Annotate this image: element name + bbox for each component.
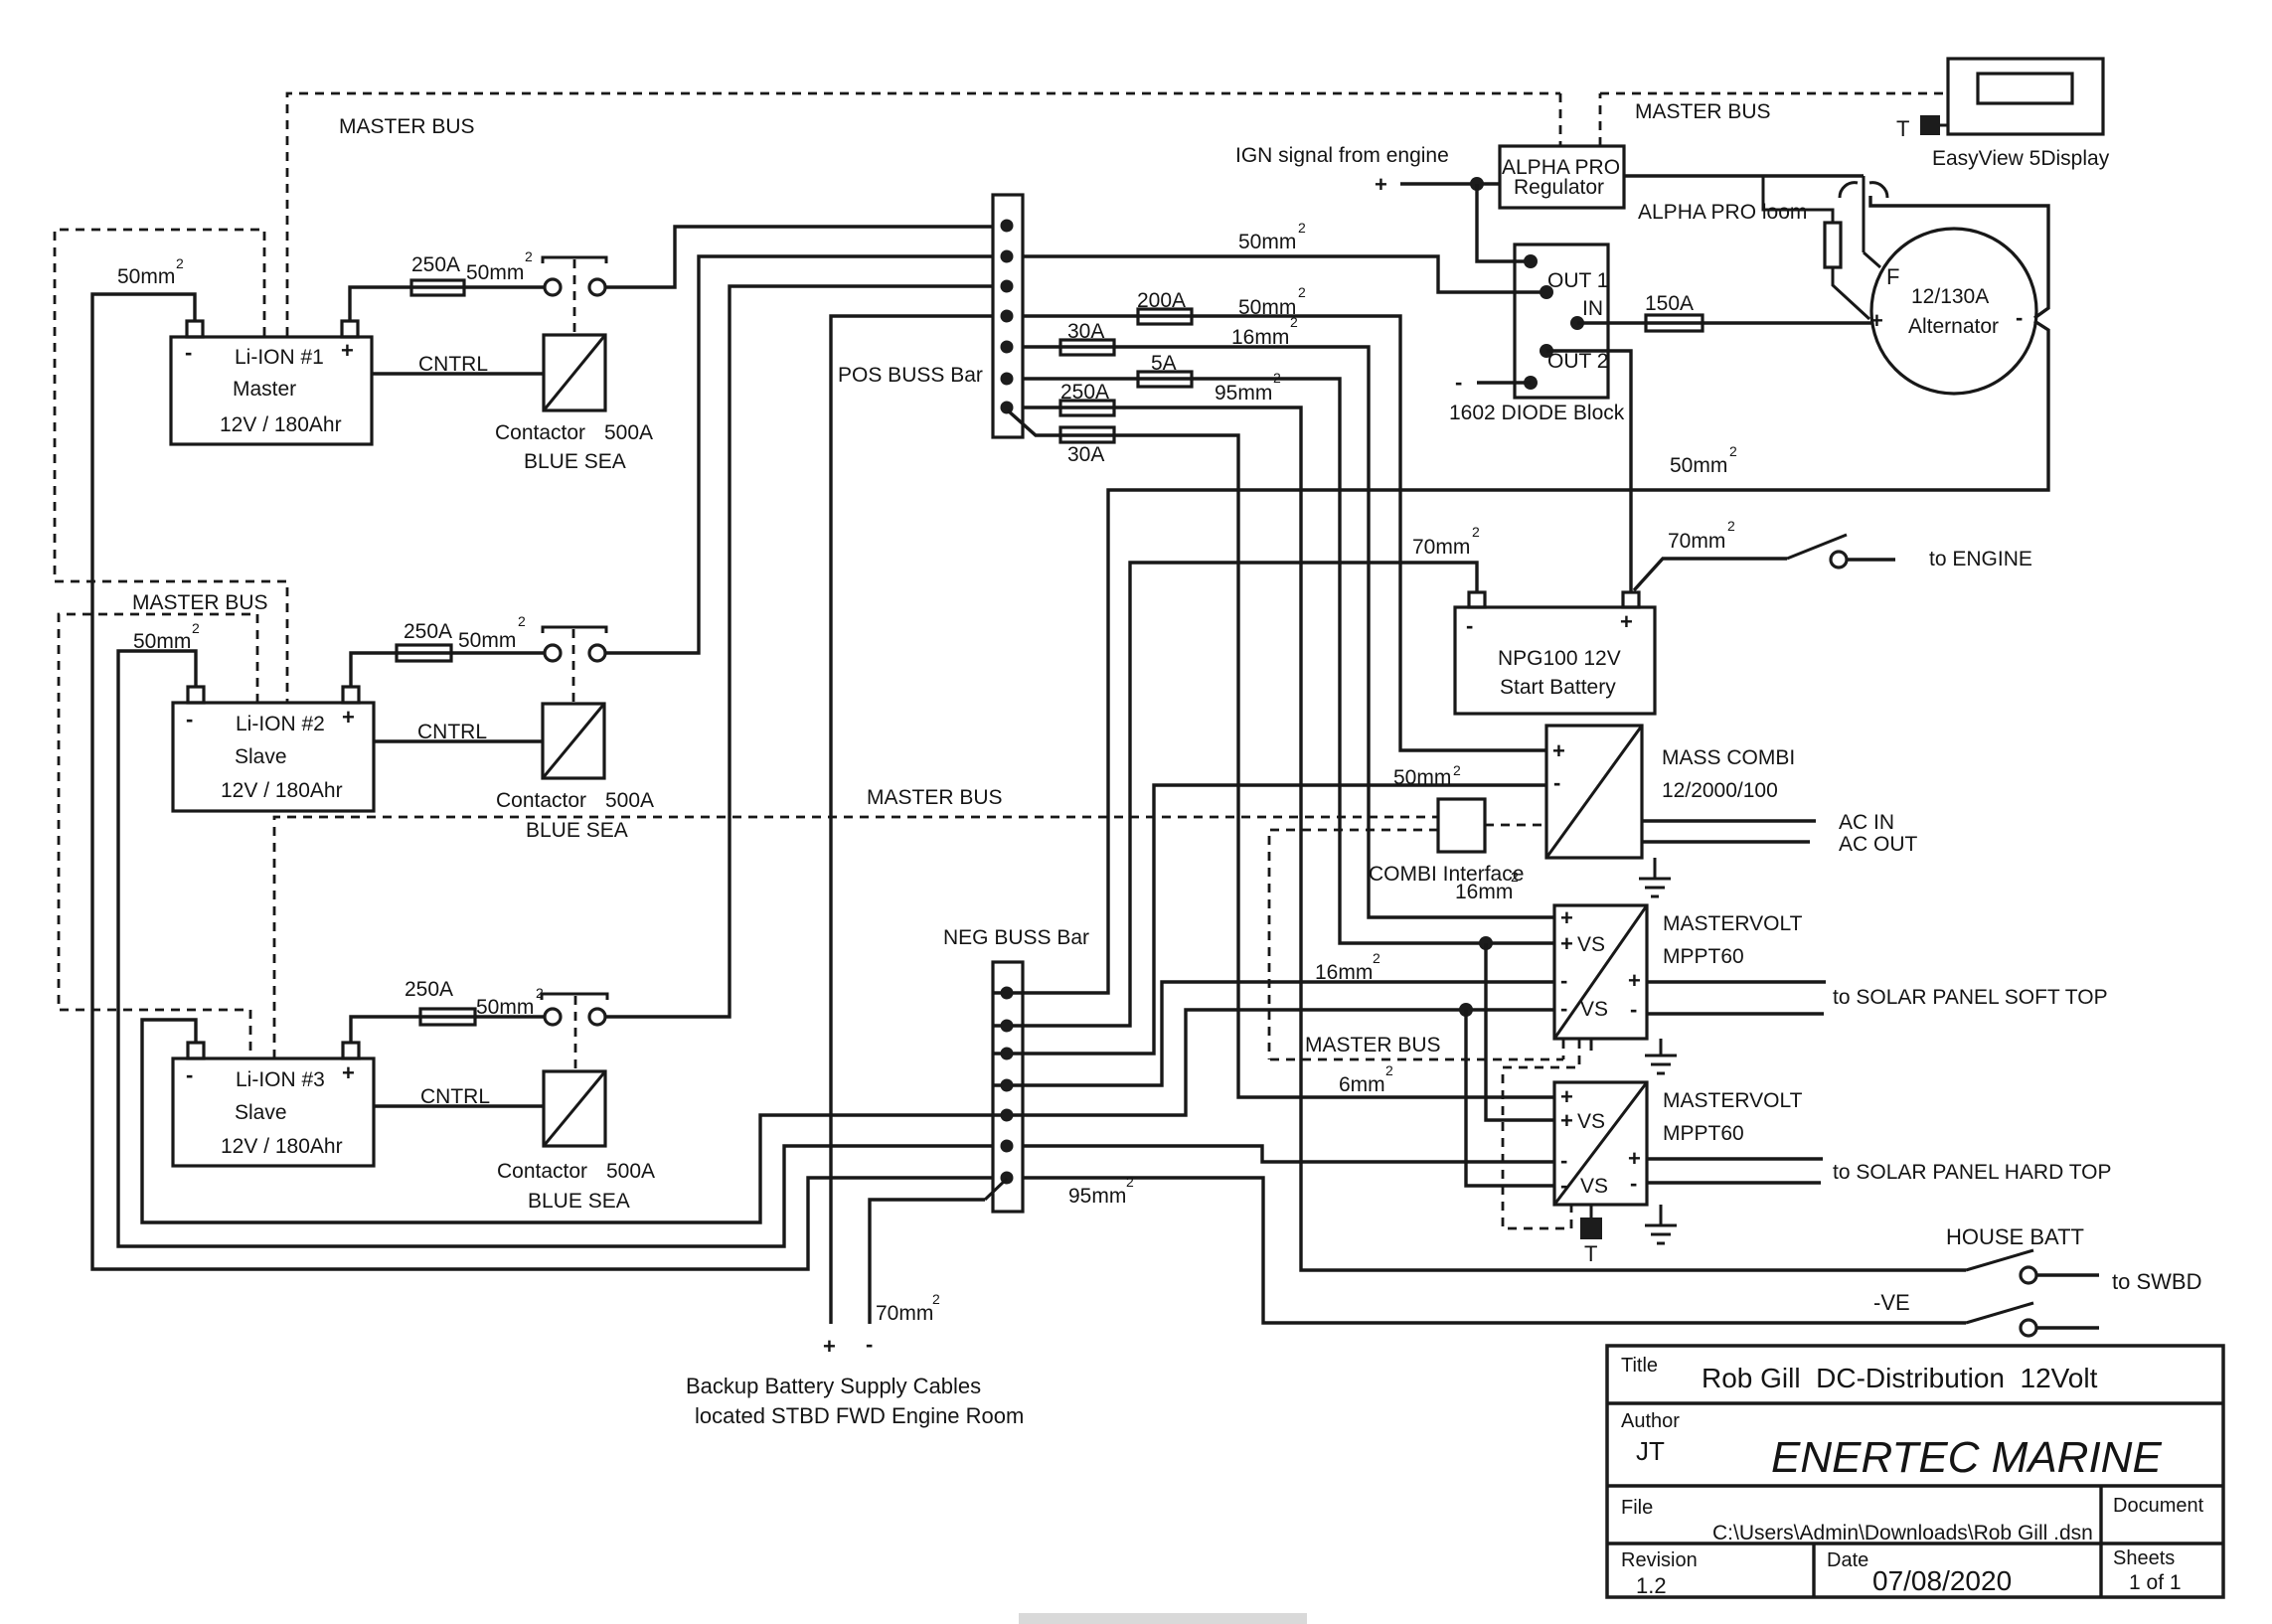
svg-text:2: 2 — [525, 248, 533, 264]
battery B4 NPG100 start battery — [1455, 592, 1655, 714]
wire regulator to alternator field — [1624, 176, 1880, 267]
svg-text:EasyView 5Display: EasyView 5Display — [1932, 147, 2110, 170]
node POS BUSS Bar — [838, 195, 1023, 437]
svg-text:16mm: 16mm — [1315, 961, 1373, 984]
svg-text:5A: 5A — [1151, 352, 1177, 375]
svg-text:to ENGINE: to ENGINE — [1929, 548, 2032, 570]
svg-text:95mm: 95mm — [1068, 1185, 1126, 1208]
wire B1 switch to POS bar — [606, 227, 993, 287]
svg-text:MASTER BUS: MASTER BUS — [867, 786, 1003, 809]
svg-text:+: + — [342, 1060, 355, 1085]
svg-text:POS BUSS Bar: POS BUSS Bar — [838, 364, 983, 387]
svg-text:MASS COMBI: MASS COMBI — [1662, 746, 1795, 769]
svg-text:2: 2 — [1126, 1174, 1134, 1190]
svg-text:F: F — [1886, 264, 1899, 289]
fuse F2 250A — [397, 620, 452, 661]
svg-text:50mm: 50mm — [1393, 766, 1451, 789]
svg-text:12/130A: 12/130A — [1911, 285, 1989, 308]
svg-text:MPPT60: MPPT60 — [1663, 1122, 1744, 1145]
svg-text:12V / 180Ahr: 12V / 180Ahr — [221, 1135, 343, 1158]
battery B2 Li-ION #2 — [173, 687, 374, 811]
svg-text:-: - — [1560, 996, 1567, 1021]
wire MPPT1 minusVS from NEG bar — [993, 1010, 1554, 1115]
contactor K2 500A BLUE SEA — [496, 629, 654, 842]
wire solar hard top + — [1647, 1157, 1823, 1160]
battery B3 Li-ION #3 — [173, 1043, 374, 1166]
svg-text:-: - — [1466, 613, 1473, 638]
display EasyView 5 — [1896, 59, 2110, 170]
svg-text:Start Battery: Start Battery — [1500, 676, 1616, 699]
svg-text:50mm: 50mm — [458, 629, 516, 652]
wire NEG bar bottom stub 95mm2 to backup - — [870, 1179, 1007, 1324]
svg-text:250A: 250A — [405, 978, 453, 1001]
fuse F7 250A — [1060, 381, 1114, 415]
junction +VS chain — [1479, 936, 1493, 950]
svg-text:+: + — [1560, 931, 1573, 956]
svg-text:+: + — [1552, 738, 1565, 763]
svg-text:2: 2 — [1472, 524, 1480, 540]
wire POS bar 30A row to MPPT1 + — [1023, 347, 1554, 917]
svg-text:Backup Battery Supply Cables: Backup Battery Supply Cables — [686, 1374, 981, 1398]
svg-text:HOUSE BATT: HOUSE BATT — [1946, 1224, 2084, 1249]
svg-text:6mm: 6mm — [1339, 1073, 1385, 1096]
svg-text:+: + — [1560, 905, 1573, 930]
svg-text:Slave: Slave — [235, 745, 287, 768]
wire start battery negative 70mm2 — [993, 563, 1477, 1026]
svg-text:NEG BUSS Bar: NEG BUSS Bar — [943, 926, 1089, 949]
svg-text:BLUE SEA: BLUE SEA — [528, 1190, 630, 1213]
svg-text:MASTER BUS: MASTER BUS — [1305, 1034, 1441, 1056]
svg-text:50mm: 50mm — [117, 265, 175, 288]
switch S3 battery disconnect — [542, 994, 607, 1025]
svg-text:95mm: 95mm — [1215, 382, 1272, 405]
junction -VS chain — [1459, 1003, 1473, 1017]
svg-text:Author: Author — [1621, 1410, 1680, 1432]
charger U4 MASTERVOLT MPPT60 no1 — [1554, 905, 1803, 1051]
svg-text:MPPT60: MPPT60 — [1663, 945, 1744, 968]
svg-text:Li-ION #2: Li-ION #2 — [236, 713, 325, 735]
wire diode minus stub — [1477, 381, 1531, 384]
charger U5 MASTERVOLT MPPT60 no2 — [1554, 1082, 1803, 1205]
wire POS bar 200A row to MASS COMBI + — [1023, 316, 1546, 750]
contactor K3 500A BLUE SEA — [497, 996, 655, 1213]
svg-text:Li-ION #1: Li-ION #1 — [235, 346, 324, 369]
svg-text:AC IN: AC IN — [1839, 811, 1894, 834]
svg-text:AC OUT: AC OUT — [1839, 833, 1918, 856]
svg-text:IGN signal from engine: IGN signal from engine — [1235, 144, 1449, 167]
svg-text:250A: 250A — [411, 253, 460, 276]
wire AC IN — [1642, 819, 1816, 822]
net MASTER BUS loop battery2-battery3 — [59, 614, 257, 1058]
wire B2 negative 50mm2 — [118, 651, 993, 1246]
wire AC OUT — [1642, 840, 1810, 843]
sensor T MPPT2 temperature — [1580, 1205, 1602, 1266]
wire POS bar 50mm2 to diode OUT1 — [1023, 256, 1546, 292]
svg-text:70mm: 70mm — [1412, 536, 1470, 559]
svg-text:Slave: Slave — [235, 1101, 287, 1124]
svg-text:+: + — [1375, 172, 1387, 197]
svg-text:File: File — [1621, 1497, 1653, 1519]
svg-text:VS: VS — [1577, 1110, 1605, 1133]
wire POS bar to backup + cable — [831, 316, 993, 1324]
svg-text:70mm: 70mm — [1668, 530, 1725, 553]
svg-text:+: + — [1628, 1146, 1641, 1171]
svg-text:T: T — [1584, 1241, 1597, 1266]
svg-text:+: + — [1560, 1084, 1573, 1109]
svg-text:JT: JT — [1636, 1436, 1665, 1466]
svg-text:MASTERVOLT: MASTERVOLT — [1663, 1089, 1803, 1112]
svg-text:50mm: 50mm — [133, 630, 191, 653]
fuse F4 200A — [1137, 289, 1192, 324]
svg-text:MASTER BUS: MASTER BUS — [132, 591, 268, 614]
ground MASS COMBI — [1639, 858, 1671, 896]
svg-text:OUT 1: OUT 1 — [1547, 269, 1608, 292]
svg-text:16mm: 16mm — [1455, 881, 1513, 903]
wire NEG bar to MPPT2 minus — [1023, 1146, 1554, 1162]
wire B3 switch to POS bar — [606, 286, 993, 1017]
wire POS bar 30A second row to MPPT2 + 6mm2 — [1008, 410, 1554, 1097]
svg-text:located STBD FWD Engine Room: located STBD FWD Engine Room — [695, 1403, 1024, 1428]
wire B1 negative 50mm2 — [92, 294, 993, 1269]
svg-text:CNTRL: CNTRL — [418, 353, 488, 376]
fuse F6 5A — [1138, 352, 1192, 387]
net MASTER BUS long dashed to COMBI interface — [274, 817, 1438, 1058]
svg-text:2: 2 — [932, 1291, 940, 1307]
svg-text:2: 2 — [1385, 1062, 1393, 1078]
svg-text:2: 2 — [1373, 950, 1380, 966]
wire B2 switch to POS bar — [606, 256, 993, 653]
svg-text:2: 2 — [1273, 370, 1281, 386]
wire alternator negative return 50mm2 — [993, 321, 2048, 993]
wire B1 positive to fuse — [350, 287, 411, 321]
inverter U2 MASS COMBI — [1546, 726, 1795, 858]
svg-text:1.2: 1.2 — [1636, 1573, 1667, 1598]
scan artifact bottom — [1019, 1613, 1307, 1624]
switch S1 battery disconnect — [543, 257, 606, 295]
diode block D1 1602 — [1449, 244, 1625, 424]
svg-text:50mm: 50mm — [1238, 231, 1296, 253]
wire solar hard top - — [1647, 1181, 1821, 1184]
wire start battery + to ENGINE — [1634, 559, 1787, 590]
svg-text:-: - — [866, 1332, 873, 1357]
svg-text:500A: 500A — [605, 789, 654, 812]
wire B3 positive to fuse — [351, 1017, 420, 1043]
svg-text:2: 2 — [192, 620, 200, 636]
svg-text:200A: 200A — [1137, 289, 1186, 312]
svg-text:-: - — [1553, 770, 1560, 795]
svg-text:Document: Document — [2113, 1495, 2204, 1517]
wire MASS COMBI - 50mm2 — [993, 785, 1546, 1054]
svg-text:Master: Master — [233, 378, 296, 401]
svg-text:BLUE SEA: BLUE SEA — [526, 819, 628, 842]
title block — [1607, 1346, 2223, 1598]
svg-text:07/08/2020: 07/08/2020 — [1872, 1565, 2012, 1596]
ground MPPT1 — [1645, 1039, 1677, 1073]
svg-text:CNTRL: CNTRL — [417, 721, 487, 743]
net MASTER BUS dashed COMBI to MASS COMBI — [1485, 824, 1546, 827]
wire diode OUT2 to start battery + — [1546, 351, 1631, 592]
node NEG BUSS Bar — [943, 926, 1089, 1212]
svg-text:2: 2 — [1453, 762, 1461, 778]
svg-text:1602 DIODE Block: 1602 DIODE Block — [1449, 402, 1625, 424]
svg-text:250A: 250A — [1060, 381, 1109, 404]
wire CNTRL B3 — [374, 1104, 544, 1107]
wire POS bar 250A row 95mm2 to house batt switch — [1023, 407, 1966, 1270]
fuse F3 250A — [405, 978, 475, 1025]
switch S2 battery disconnect — [543, 627, 606, 661]
svg-text:2: 2 — [176, 255, 184, 271]
fuse F5 30A — [1060, 320, 1114, 355]
svg-text:Rob Gill DC-Distribution 12V: Rob Gill DC-Distribution 12Volt — [1702, 1363, 2098, 1393]
svg-text:500A: 500A — [604, 421, 653, 444]
svg-text:-: - — [1630, 997, 1637, 1022]
svg-text:50mm: 50mm — [466, 261, 524, 284]
wire B2 positive to fuse — [351, 653, 397, 687]
wire CNTRL B1 — [372, 372, 544, 375]
svg-text:-: - — [2016, 305, 2023, 330]
svg-text:+: + — [1870, 308, 1883, 333]
fuse F1 250A — [411, 253, 464, 295]
svg-text:IN: IN — [1582, 297, 1603, 320]
svg-text:16mm: 16mm — [1231, 326, 1289, 349]
svg-text:OUT 2: OUT 2 — [1547, 350, 1608, 373]
svg-text:30A: 30A — [1067, 443, 1104, 466]
svg-text:2: 2 — [1290, 314, 1298, 330]
svg-text:2: 2 — [518, 613, 526, 629]
interface U3 COMBI Interface — [1369, 799, 1524, 886]
svg-text:Li-ION #3: Li-ION #3 — [236, 1068, 325, 1091]
svg-text:-: - — [185, 340, 192, 365]
switch S4 to ENGINE — [1787, 535, 1895, 568]
svg-text:12/2000/100: 12/2000/100 — [1662, 779, 1778, 802]
svg-text:MASTERVOLT: MASTERVOLT — [1663, 912, 1803, 935]
wire IGN + to regulator — [1400, 182, 1500, 185]
svg-text:to SWBD: to SWBD — [2112, 1269, 2201, 1294]
svg-text:-VE: -VE — [1873, 1290, 1910, 1315]
svg-text:-: - — [1560, 1148, 1567, 1173]
svg-text:250A: 250A — [404, 620, 452, 643]
net MASTER BUS loop battery1-battery2 — [55, 230, 287, 703]
svg-text:Title: Title — [1621, 1355, 1658, 1377]
svg-text:2: 2 — [1511, 869, 1519, 885]
svg-text:+: + — [1620, 609, 1633, 634]
svg-text:to SOLAR PANEL SOFT TOP: to SOLAR PANEL SOFT TOP — [1833, 986, 2108, 1009]
svg-text:1 of 1: 1 of 1 — [2129, 1571, 2182, 1594]
ground MPPT2 — [1645, 1205, 1677, 1243]
svg-text:-: - — [1630, 1171, 1637, 1196]
wire CNTRL B2 — [374, 739, 543, 742]
svg-text:-: - — [186, 1062, 193, 1087]
svg-text:+: + — [342, 705, 355, 730]
svg-text:12V / 180Ahr: 12V / 180Ahr — [221, 779, 343, 802]
svg-text:Date: Date — [1827, 1549, 1868, 1571]
net MASTER BUS branch to MPPT area — [1269, 830, 1579, 1228]
svg-text:Sheets: Sheets — [2113, 1547, 2175, 1569]
svg-text:30A: 30A — [1067, 320, 1104, 343]
wire B3 negative 50mm2 — [142, 1020, 993, 1222]
wire fuse to switch B3 — [475, 1015, 544, 1018]
svg-text:2: 2 — [1298, 284, 1306, 300]
wire MPPT1 minus 16mm2 from NEG bar — [993, 982, 1554, 1085]
svg-text:2: 2 — [1298, 220, 1306, 236]
wire fuse to switch B1 — [464, 285, 544, 288]
svg-text:50mm: 50mm — [1238, 296, 1296, 319]
regulator U1 ALPHA PRO — [1500, 146, 1624, 208]
svg-text:MASTER BUS: MASTER BUS — [339, 115, 475, 138]
fuse F9 alternator sense — [1763, 176, 1869, 319]
svg-text:500A: 500A — [606, 1160, 655, 1183]
svg-text:Alternator: Alternator — [1908, 315, 1999, 338]
svg-text:ALPHA PRO loom: ALPHA PRO loom — [1638, 201, 1807, 224]
svg-text:VS: VS — [1580, 1175, 1608, 1198]
net MASTER BUS top dashed run — [287, 93, 1948, 336]
svg-text:+: + — [341, 338, 354, 363]
svg-text:70mm: 70mm — [876, 1302, 933, 1325]
svg-text:Contactor: Contactor — [497, 1160, 587, 1183]
fuse F8 30A — [1060, 427, 1114, 466]
svg-text:2: 2 — [1729, 443, 1737, 459]
wire junction to diode top pin — [1477, 184, 1531, 261]
switch S5 house batt to SWBD — [1966, 1250, 2099, 1283]
alternator G1 12/130A — [1870, 229, 2036, 394]
svg-text:ENERTEC MARINE: ENERTEC MARINE — [1771, 1433, 2162, 1482]
wire diode IN through 150A fuse to alternator + — [1577, 292, 1872, 331]
contactor K1 500A BLUE SEA — [495, 259, 653, 473]
svg-text:-: - — [1560, 968, 1567, 993]
svg-text:CNTRL: CNTRL — [420, 1085, 490, 1108]
svg-text:50mm: 50mm — [1670, 454, 1727, 477]
svg-text:-: - — [1455, 370, 1462, 395]
svg-text:BLUE SEA: BLUE SEA — [524, 450, 626, 473]
svg-text:C:\Users\Admin\Downloads\Rob G: C:\Users\Admin\Downloads\Rob Gill .dsn — [1712, 1522, 2093, 1544]
svg-text:MASTER BUS: MASTER BUS — [1635, 100, 1771, 123]
svg-text:+: + — [1628, 968, 1641, 993]
svg-text:2: 2 — [1727, 518, 1735, 534]
svg-text:-: - — [1560, 1173, 1567, 1198]
wire solar soft top + — [1647, 980, 1826, 983]
svg-text:to SOLAR PANEL HARD TOP: to SOLAR PANEL HARD TOP — [1833, 1161, 2112, 1184]
svg-text:+: + — [823, 1334, 836, 1359]
svg-text:12V / 180Ahr: 12V / 180Ahr — [220, 413, 342, 436]
svg-text:NPG100 12V: NPG100 12V — [1498, 647, 1621, 670]
switch S6 -VE to SWBD — [1966, 1303, 2099, 1336]
svg-text:+: + — [1560, 1108, 1573, 1133]
svg-text:150A: 150A — [1645, 292, 1694, 315]
battery B1 Li-ION #1 — [171, 321, 372, 444]
svg-text:Contactor: Contactor — [496, 789, 586, 812]
svg-text:Revision: Revision — [1621, 1549, 1698, 1571]
svg-text:Regulator: Regulator — [1514, 176, 1604, 199]
wire fuse to switch B2 — [451, 651, 544, 654]
svg-text:-: - — [186, 707, 193, 731]
connector ALPHA PRO loom plug — [1840, 183, 1887, 198]
svg-text:Contactor: Contactor — [495, 421, 585, 444]
wire POS bar 5A row to MPPT +VS — [1023, 379, 1554, 943]
wire NEG bar to -VE switch — [1023, 1178, 1966, 1323]
wire solar soft top - — [1647, 1012, 1824, 1015]
svg-text:VS: VS — [1580, 998, 1608, 1021]
svg-text:T: T — [1896, 116, 1909, 141]
wire alternator housing top — [1870, 196, 2048, 318]
svg-text:VS: VS — [1577, 933, 1605, 956]
